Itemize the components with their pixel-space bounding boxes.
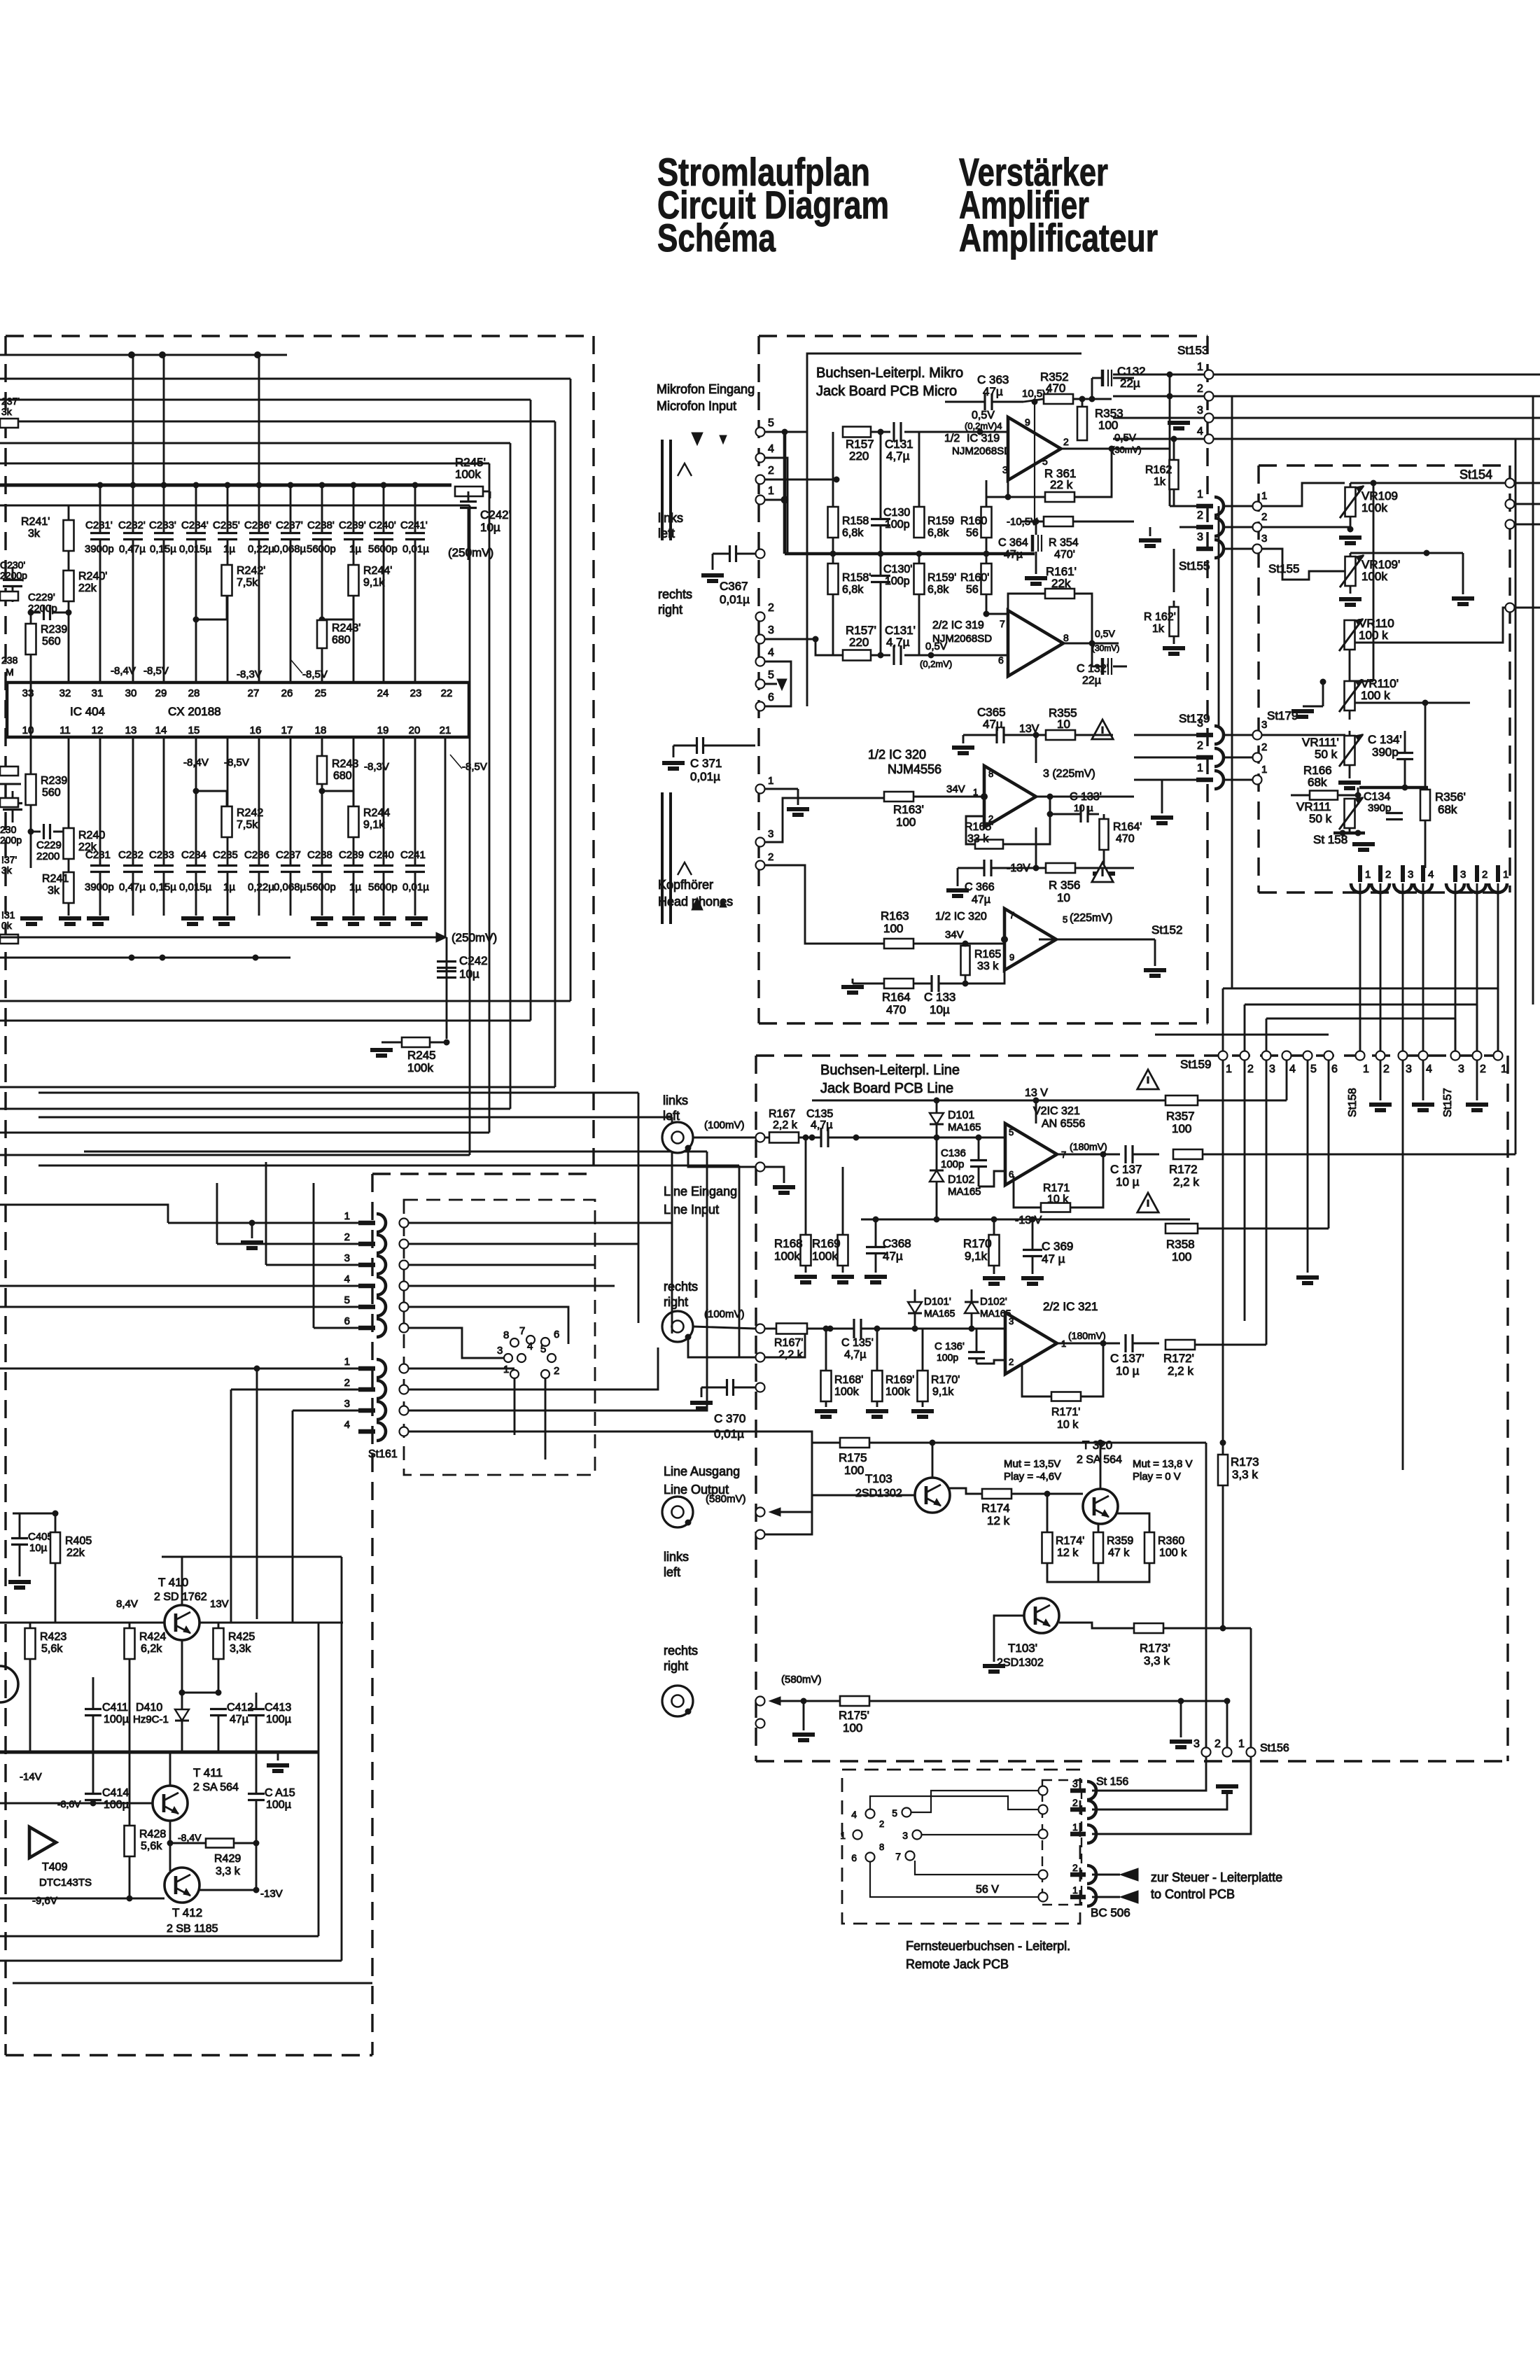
svg-text:10 µ: 10 µ [1074, 802, 1093, 813]
svg-text:3: 3 [344, 1252, 350, 1264]
svg-text:C236: C236 [244, 849, 269, 861]
svg-text:C 134': C 134' [1368, 733, 1402, 746]
svg-text:7,5k: 7,5k [237, 577, 258, 589]
svg-text:(100mV): (100mV) [704, 1119, 745, 1131]
svg-text:right: right [664, 1659, 688, 1673]
svg-text:C 137': C 137' [1110, 1352, 1144, 1365]
svg-text:3: 3 [902, 1830, 908, 1841]
svg-text:R239': R239' [41, 624, 69, 636]
svg-text:R425: R425 [228, 1631, 255, 1643]
svg-text:Jack Board PCB Micro: Jack Board PCB Micro [816, 384, 957, 399]
svg-text:R168: R168 [774, 1237, 803, 1250]
svg-text:100k: 100k [885, 1386, 911, 1398]
svg-text:100: 100 [883, 922, 903, 935]
svg-text:2: 2 [1261, 511, 1267, 523]
svg-text:20: 20 [409, 724, 421, 736]
svg-text:6: 6 [554, 1329, 559, 1340]
svg-text:1: 1 [344, 1356, 350, 1368]
svg-text:2,2 k: 2,2 k [778, 1349, 804, 1361]
svg-text:100k: 100k [407, 1061, 433, 1074]
svg-text:2SD1302: 2SD1302 [855, 1487, 902, 1499]
svg-text:2200: 2200 [36, 850, 59, 862]
svg-text:2: 2 [1072, 1862, 1078, 1873]
svg-text:T103': T103' [1008, 1641, 1037, 1655]
svg-text:16: 16 [250, 724, 262, 736]
svg-text:-8,4V: -8,4V [178, 1832, 202, 1843]
svg-text:R175': R175' [839, 1709, 869, 1722]
svg-text:BC 506: BC 506 [1091, 1906, 1130, 1919]
svg-text:St159: St159 [1180, 1058, 1211, 1071]
svg-text:R242': R242' [237, 565, 265, 577]
svg-text:C 370: C 370 [714, 1412, 745, 1425]
svg-text:C 133': C 133' [1070, 791, 1102, 803]
svg-text:Jack Board PCB Line: Jack Board PCB Line [820, 1081, 953, 1096]
svg-text:100 k: 100 k [1159, 1547, 1187, 1559]
svg-text:10µ: 10µ [459, 967, 479, 981]
svg-text:9,1k: 9,1k [363, 819, 385, 831]
svg-text:1: 1 [1501, 1063, 1507, 1075]
svg-text:2: 2 [1261, 741, 1267, 753]
svg-text:1: 1 [1363, 1063, 1369, 1075]
svg-text:100p: 100p [885, 575, 910, 587]
svg-text:(180mV): (180mV) [1068, 1330, 1106, 1341]
svg-text:1: 1 [768, 775, 773, 787]
svg-text:100: 100 [844, 1464, 864, 1477]
svg-text:NJM4556: NJM4556 [888, 762, 941, 776]
svg-text:R159': R159' [927, 572, 956, 584]
svg-text:13V: 13V [210, 1598, 229, 1610]
svg-text:100k: 100k [455, 468, 481, 481]
svg-text:68k: 68k [1438, 803, 1457, 816]
svg-text:100p: 100p [885, 519, 910, 531]
svg-text:50 k: 50 k [1315, 748, 1338, 761]
svg-text:9: 9 [1009, 952, 1014, 962]
svg-text:1: 1 [1072, 1821, 1078, 1833]
svg-text:(0,2mV)4: (0,2mV)4 [965, 421, 1002, 431]
svg-text:5: 5 [768, 417, 774, 429]
svg-text:(180mV): (180mV) [1070, 1141, 1107, 1152]
svg-text:3,3 k: 3,3 k [1232, 1468, 1258, 1481]
svg-text:R174: R174 [981, 1501, 1010, 1515]
svg-text:Buchsen-Leiterpl. Mikro: Buchsen-Leiterpl. Mikro [816, 365, 963, 381]
svg-text:1µ: 1µ [223, 543, 235, 555]
svg-text:C238: C238 [307, 849, 332, 861]
svg-text:0,015µ: 0,015µ [179, 881, 212, 893]
svg-text:4: 4 [768, 443, 774, 455]
svg-text:470: 470 [1116, 833, 1135, 845]
svg-text:right: right [664, 1295, 688, 1309]
svg-text:C234': C234' [181, 519, 209, 531]
svg-text:1: 1 [1261, 490, 1267, 502]
svg-text:(225mV): (225mV) [1070, 912, 1112, 924]
svg-text:6,8k: 6,8k [927, 527, 949, 539]
svg-text:C229': C229' [28, 591, 55, 603]
svg-text:2,2 k: 2,2 k [1168, 1364, 1193, 1378]
svg-text:C136: C136 [941, 1147, 966, 1159]
svg-text:3: 3 [1460, 869, 1466, 881]
svg-text:4: 4 [344, 1419, 350, 1431]
svg-text:56 V: 56 V [976, 1884, 999, 1896]
svg-text:33: 33 [22, 687, 34, 699]
svg-text:1: 1 [1197, 762, 1203, 774]
svg-text:25: 25 [315, 687, 327, 699]
svg-text:33 k: 33 k [977, 960, 999, 972]
svg-text:3 (225mV): 3 (225mV) [1043, 768, 1095, 780]
svg-text:C 137: C 137 [1110, 1163, 1142, 1176]
svg-text:Fernsteuerbuchsen - Leiterpl.: Fernsteuerbuchsen - Leiterpl. [906, 1939, 1070, 1953]
svg-text:3: 3 [1408, 869, 1413, 881]
svg-text:C 135': C 135' [841, 1337, 874, 1349]
svg-text:T409: T409 [42, 1861, 68, 1873]
svg-text:3k: 3k [28, 528, 41, 540]
svg-text:Head phones: Head phones [658, 895, 733, 909]
svg-text:10 µ: 10 µ [1116, 1364, 1140, 1378]
svg-text:Line Eingang: Line Eingang [664, 1184, 737, 1198]
svg-text:-8,5V: -8,5V [143, 665, 169, 677]
svg-text:390p: 390p [1372, 745, 1399, 759]
svg-text:100k: 100k [1361, 570, 1387, 583]
svg-text:0,068µ: 0,068µ [274, 881, 307, 893]
svg-text:left: left [658, 526, 675, 540]
svg-text:to Control PCB: to Control PCB [1151, 1887, 1235, 1901]
svg-text:6: 6 [1331, 1063, 1338, 1075]
svg-text:14: 14 [155, 724, 167, 736]
svg-text:3k: 3k [1, 864, 13, 876]
svg-text:C232': C232' [118, 519, 146, 531]
svg-text:C234: C234 [181, 849, 206, 861]
svg-text:6,8k: 6,8k [842, 584, 864, 596]
svg-text:3900p: 3900p [85, 881, 114, 893]
svg-text:10: 10 [1057, 891, 1070, 904]
svg-text:R357: R357 [1166, 1109, 1195, 1123]
svg-text:V2IC 321: V2IC 321 [1033, 1105, 1080, 1117]
svg-text:1: 1 [503, 1364, 509, 1375]
svg-text:28: 28 [188, 687, 200, 699]
svg-text:12 k: 12 k [1057, 1547, 1079, 1559]
svg-text:3: 3 [1269, 1063, 1275, 1075]
svg-text:C135: C135 [806, 1108, 833, 1120]
svg-text:0,5V: 0,5V [972, 409, 995, 421]
svg-text:R242: R242 [237, 807, 263, 819]
svg-text:1µ: 1µ [349, 543, 361, 555]
svg-text:R165': R165' [965, 821, 993, 833]
svg-text:9,1k: 9,1k [363, 577, 385, 589]
svg-text:(580mV): (580mV) [781, 1674, 822, 1686]
svg-text:Line Ausgang: Line Ausgang [664, 1464, 740, 1478]
svg-text:220: 220 [849, 449, 869, 463]
svg-text:2200p: 2200p [0, 570, 27, 581]
svg-text:6: 6 [768, 692, 774, 703]
svg-text:100µ: 100µ [266, 1714, 291, 1725]
svg-text:R172': R172' [1163, 1352, 1194, 1365]
svg-text:-8,4V: -8,4V [183, 757, 209, 769]
svg-text:T 411: T 411 [193, 1766, 223, 1779]
svg-text:C242': C242' [480, 508, 511, 521]
svg-text:100p: 100p [941, 1158, 964, 1170]
svg-text:R 162': R 162' [1144, 611, 1176, 623]
svg-text:680: 680 [333, 770, 352, 782]
svg-text:R360: R360 [1158, 1535, 1184, 1547]
svg-text:1k: 1k [1152, 623, 1165, 635]
svg-text:2: 2 [1197, 740, 1203, 752]
svg-text:1: 1 [840, 1830, 846, 1841]
svg-text:St 156: St 156 [1096, 1776, 1128, 1788]
svg-text:R240: R240 [78, 829, 105, 841]
svg-text:100k: 100k [812, 1249, 838, 1263]
svg-text:230: 230 [0, 824, 17, 835]
svg-text:C 366: C 366 [965, 881, 995, 893]
svg-text:1: 1 [1503, 869, 1508, 881]
svg-text:5: 5 [540, 1343, 546, 1355]
svg-text:3: 3 [1458, 1063, 1464, 1075]
svg-text:D102: D102 [948, 1174, 974, 1186]
svg-text:238: 238 [1, 654, 18, 666]
svg-text:8: 8 [503, 1329, 509, 1341]
svg-text:R241': R241' [21, 516, 50, 528]
svg-text:5,6k: 5,6k [41, 1643, 63, 1655]
svg-text:22k: 22k [1051, 577, 1071, 590]
svg-text:St161: St161 [368, 1448, 398, 1460]
svg-text:13: 13 [125, 724, 137, 736]
svg-text:9: 9 [1025, 416, 1030, 428]
svg-text:9,1k: 9,1k [932, 1386, 954, 1398]
svg-text:2: 2 [1247, 1063, 1254, 1075]
svg-text:560: 560 [42, 787, 61, 799]
svg-text:100µ: 100µ [266, 1799, 291, 1811]
svg-text:2: 2 [768, 602, 774, 614]
svg-text:1: 1 [1365, 869, 1371, 881]
svg-text:rechts: rechts [658, 587, 692, 601]
svg-text:1: 1 [1197, 489, 1203, 500]
svg-text:St153: St153 [1177, 344, 1208, 357]
svg-text:-8,3V: -8,3V [237, 668, 262, 680]
svg-text:22k: 22k [78, 841, 97, 853]
svg-text:R169: R169 [812, 1237, 841, 1250]
svg-text:-13V: -13V [260, 1888, 283, 1900]
svg-text:1: 1 [1261, 764, 1267, 776]
svg-text:31: 31 [92, 687, 104, 699]
svg-text:-8,5V: -8,5V [462, 761, 487, 773]
svg-text:4: 4 [527, 1340, 533, 1352]
svg-text:12 k: 12 k [987, 1514, 1010, 1527]
svg-text:C367: C367 [720, 580, 748, 593]
svg-text:3,3k: 3,3k [230, 1643, 251, 1655]
svg-text:3: 3 [768, 624, 774, 636]
svg-text:R163: R163 [881, 909, 909, 923]
svg-text:R244': R244' [363, 565, 392, 577]
svg-text:23: 23 [410, 687, 422, 699]
svg-text:3: 3 [1197, 717, 1203, 729]
svg-text:C368: C368 [883, 1237, 911, 1250]
svg-text:R428: R428 [139, 1828, 166, 1840]
svg-text:100 k: 100 k [1359, 629, 1388, 642]
svg-text:Play = -4,6V: Play = -4,6V [1004, 1471, 1061, 1483]
svg-text:22k: 22k [66, 1547, 85, 1559]
svg-text:D101: D101 [948, 1109, 974, 1121]
svg-text:47 k: 47 k [1108, 1547, 1130, 1559]
svg-text:C240': C240' [369, 519, 396, 531]
svg-text:C240: C240 [369, 849, 394, 861]
svg-text:C237: C237 [276, 849, 301, 861]
svg-text:Mikrofon Eingang: Mikrofon Eingang [657, 382, 755, 396]
svg-text:5: 5 [892, 1807, 897, 1819]
svg-text:R171: R171 [1043, 1182, 1070, 1194]
svg-text:1µ: 1µ [349, 881, 361, 893]
svg-text:Remote Jack PCB: Remote Jack PCB [906, 1957, 1009, 1971]
svg-text:200p: 200p [0, 834, 22, 846]
svg-text:rechts: rechts [664, 1280, 698, 1294]
svg-text:D410: D410 [136, 1702, 162, 1714]
svg-text:47 µ: 47 µ [1042, 1252, 1065, 1266]
svg-text:5600p: 5600p [307, 543, 336, 555]
svg-text:C237': C237' [276, 519, 303, 531]
svg-text:3,3 k: 3,3 k [216, 1865, 241, 1877]
svg-text:R174': R174' [1056, 1535, 1084, 1547]
svg-text:R167': R167' [774, 1337, 803, 1349]
svg-text:2/2 IC 321: 2/2 IC 321 [1043, 1300, 1098, 1313]
svg-text:1: 1 [1238, 1738, 1245, 1750]
svg-text:C 133: C 133 [924, 990, 955, 1004]
svg-text:5: 5 [1042, 456, 1048, 467]
svg-text:R160: R160 [960, 515, 987, 527]
svg-text:(580mV): (580mV) [706, 1493, 746, 1505]
svg-text:C130': C130' [883, 563, 912, 575]
svg-text:R160': R160' [960, 572, 989, 584]
svg-text:R164': R164' [1113, 821, 1142, 833]
svg-text:Play = 0 V: Play = 0 V [1133, 1471, 1181, 1483]
svg-text:2: 2 [879, 1819, 884, 1829]
svg-text:MA165: MA165 [948, 1121, 981, 1133]
svg-text:R158: R158 [842, 515, 869, 527]
svg-text:Kopfhörer: Kopfhörer [658, 878, 713, 892]
svg-text:34V: 34V [946, 783, 965, 795]
svg-text:T 320: T 320 [1082, 1438, 1112, 1452]
svg-text:100p: 100p [937, 1352, 958, 1363]
svg-text:560: 560 [42, 636, 61, 647]
svg-text:!37': !37' [1, 854, 17, 865]
svg-text:DTC143TS: DTC143TS [39, 1877, 92, 1889]
svg-text:47µ: 47µ [972, 894, 990, 906]
svg-text:R429: R429 [214, 1853, 241, 1865]
svg-text:St157: St157 [1442, 1088, 1454, 1117]
svg-text:4: 4 [344, 1273, 350, 1285]
svg-text:0,47µ: 0,47µ [119, 881, 146, 893]
svg-text:2: 2 [1197, 383, 1203, 395]
svg-text:3k: 3k [48, 885, 60, 897]
svg-text:15: 15 [188, 724, 200, 736]
svg-text:R170': R170' [931, 1374, 960, 1386]
svg-text:R167: R167 [769, 1108, 795, 1120]
svg-text:St154: St154 [1459, 468, 1492, 482]
svg-text:C232: C232 [118, 849, 143, 861]
svg-text:100: 100 [1172, 1250, 1191, 1263]
svg-text:8,4V: 8,4V [116, 1598, 138, 1610]
svg-text:680: 680 [332, 634, 351, 646]
svg-text:22k: 22k [78, 582, 97, 594]
svg-text:2,2 k: 2,2 k [1173, 1175, 1199, 1189]
svg-text:Buchsen-Leiterpl. Line: Buchsen-Leiterpl. Line [820, 1063, 960, 1078]
svg-text:R169': R169' [885, 1374, 914, 1386]
svg-text:C411: C411 [102, 1702, 128, 1714]
svg-text:10µ: 10µ [930, 1003, 950, 1016]
svg-text:4,7µ: 4,7µ [844, 1349, 866, 1361]
svg-text:47µ: 47µ [883, 1249, 903, 1263]
svg-text:R164: R164 [882, 990, 911, 1004]
svg-text:(250mV): (250mV) [451, 931, 497, 944]
svg-text:3k: 3k [1, 406, 13, 417]
svg-text:R356': R356' [1435, 790, 1466, 804]
svg-text:Hz9C-1: Hz9C-1 [133, 1714, 169, 1725]
svg-text:-8,5V: -8,5V [224, 757, 249, 769]
svg-text:2/2 IC 319: 2/2 IC 319 [932, 619, 984, 631]
svg-text:220: 220 [849, 636, 869, 649]
svg-text:R170: R170 [963, 1237, 992, 1250]
svg-text:C A15: C A15 [265, 1787, 295, 1799]
svg-text:left: left [663, 1109, 680, 1123]
svg-text:47µ: 47µ [983, 385, 1003, 398]
svg-text:R171': R171' [1051, 1406, 1080, 1418]
svg-text:C241': C241' [400, 519, 428, 531]
svg-text:R405: R405 [65, 1535, 92, 1547]
svg-text:R245: R245 [407, 1049, 436, 1062]
svg-text:1: 1 [1226, 1063, 1232, 1075]
svg-text:7: 7 [895, 1851, 901, 1862]
svg-text:St156: St156 [1260, 1742, 1289, 1754]
svg-text:100k: 100k [774, 1249, 800, 1263]
svg-text:C 369: C 369 [1042, 1240, 1073, 1253]
svg-text:C134: C134 [1364, 791, 1390, 803]
svg-text:47µ: 47µ [230, 1714, 248, 1725]
svg-text:8: 8 [988, 769, 993, 779]
svg-text:St152: St152 [1151, 923, 1182, 937]
svg-text:6,8k: 6,8k [927, 584, 949, 596]
svg-text:0,01µ: 0,01µ [720, 593, 750, 606]
svg-text:C405: C405 [28, 1531, 53, 1543]
svg-text:C239': C239' [339, 519, 366, 531]
svg-text:470: 470 [886, 1003, 906, 1016]
svg-text:29: 29 [155, 687, 167, 699]
svg-text:22µ: 22µ [1082, 675, 1101, 687]
svg-text:-14V: -14V [20, 1771, 42, 1783]
svg-text:R243: R243 [332, 758, 358, 770]
svg-text:R162: R162 [1145, 464, 1172, 476]
svg-text:C233: C233 [149, 849, 174, 861]
svg-text:-8,4V: -8,4V [111, 665, 136, 677]
svg-text:10 k: 10 k [1057, 1419, 1079, 1431]
svg-text:100µ: 100µ [104, 1714, 129, 1725]
svg-text:0,22µ: 0,22µ [248, 881, 274, 893]
svg-text:2: 2 [1214, 1738, 1221, 1750]
svg-text:1: 1 [1197, 361, 1203, 373]
svg-text:1: 1 [1072, 1884, 1078, 1896]
svg-text:R358: R358 [1166, 1238, 1195, 1251]
svg-text:-8,3V: -8,3V [364, 761, 389, 773]
svg-text:100 k: 100 k [1361, 689, 1390, 702]
svg-text:3: 3 [1072, 1778, 1078, 1789]
svg-text:32: 32 [59, 687, 71, 699]
svg-text:10: 10 [22, 724, 34, 736]
svg-text:22 k: 22 k [1050, 478, 1073, 491]
svg-text:6,8k: 6,8k [842, 527, 864, 539]
svg-text:C242: C242 [459, 954, 488, 967]
svg-text:50 k: 50 k [1309, 812, 1332, 825]
svg-text:100µ: 100µ [104, 1799, 129, 1811]
svg-text:C233': C233' [149, 519, 176, 531]
svg-text:17: 17 [281, 724, 293, 736]
svg-text:3: 3 [1406, 1063, 1412, 1075]
svg-text:C239: C239 [339, 849, 364, 861]
svg-text:10 k: 10 k [1047, 1193, 1069, 1205]
